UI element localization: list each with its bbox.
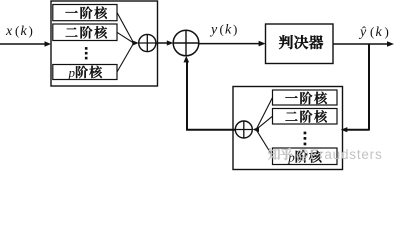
wire S2 to decision block — [199, 43, 260, 45]
svg-text:(: ( — [15, 23, 19, 38]
wire output yhat(k) arrow — [333, 43, 388, 45]
wire 一阶核(fb) to summer S3 — [257, 98, 273, 129]
block 判决器 (decision device) — [266, 24, 334, 64]
vertical ellipsis (feedback kernels) — [304, 132, 307, 135]
svg-text:): ) — [385, 24, 389, 39]
svg-text:k: k — [21, 24, 28, 39]
wire p阶核(fb) to summer S3 — [257, 130, 273, 156]
block p阶核 (p-order kernel, feedforward) — [53, 65, 117, 80]
svg-text:y: y — [209, 23, 218, 38]
block 二阶核 (second-order kernel, feedforward) — [53, 24, 117, 41]
block 二阶核 (second-order kernel, feedback) — [273, 109, 338, 125]
svg-text:p: p — [68, 65, 76, 80]
svg-text:k: k — [376, 25, 383, 40]
block 一阶核 (first-order kernel, feedback) — [273, 90, 338, 105]
svg-text:k: k — [225, 23, 232, 38]
summer S1 (feedforward sum) — [139, 34, 156, 51]
block p阶核 (p-order kernel, feedback) — [273, 148, 338, 165]
svg-text:@Fraudsters: @Fraudsters — [296, 147, 383, 162]
wire 一阶核 to summer S1 — [117, 13, 134, 43]
block: feedforward Volterra filter box — [51, 1, 158, 86]
svg-text:p: p — [287, 150, 295, 165]
wire 二阶核(fb) to summer S3 — [257, 116, 273, 129]
svg-text:ŷ: ŷ — [358, 25, 367, 40]
svg-text:): ) — [29, 23, 33, 38]
block 一阶核 (first-order kernel, feedforward) — [53, 5, 117, 21]
svg-text:x: x — [5, 24, 13, 39]
wire input x(k) arrow — [0, 43, 46, 45]
wire feedback: down from output branch — [368, 44, 370, 131]
wire S3 left then up to S2 — [186, 129, 235, 131]
svg-text:(: ( — [220, 22, 224, 37]
svg-text:(: ( — [370, 24, 374, 39]
svg-text:): ) — [233, 22, 237, 37]
wire p阶核 to summer S1 — [117, 43, 134, 72]
summer S3 (feedback sum) — [235, 121, 252, 138]
wire S1 to summer S2 — [156, 42, 168, 44]
wire feedback: left into feedback filter box — [346, 129, 369, 131]
summer S2 (add feedback) — [173, 30, 199, 56]
watermark 知乎 @Fraudsters — [268, 148, 280, 160]
vertical ellipsis (feedforward kernels) — [85, 47, 88, 50]
block: feedback Volterra filter box — [233, 87, 343, 170]
wire 二阶核 to summer S1 — [117, 32, 134, 43]
